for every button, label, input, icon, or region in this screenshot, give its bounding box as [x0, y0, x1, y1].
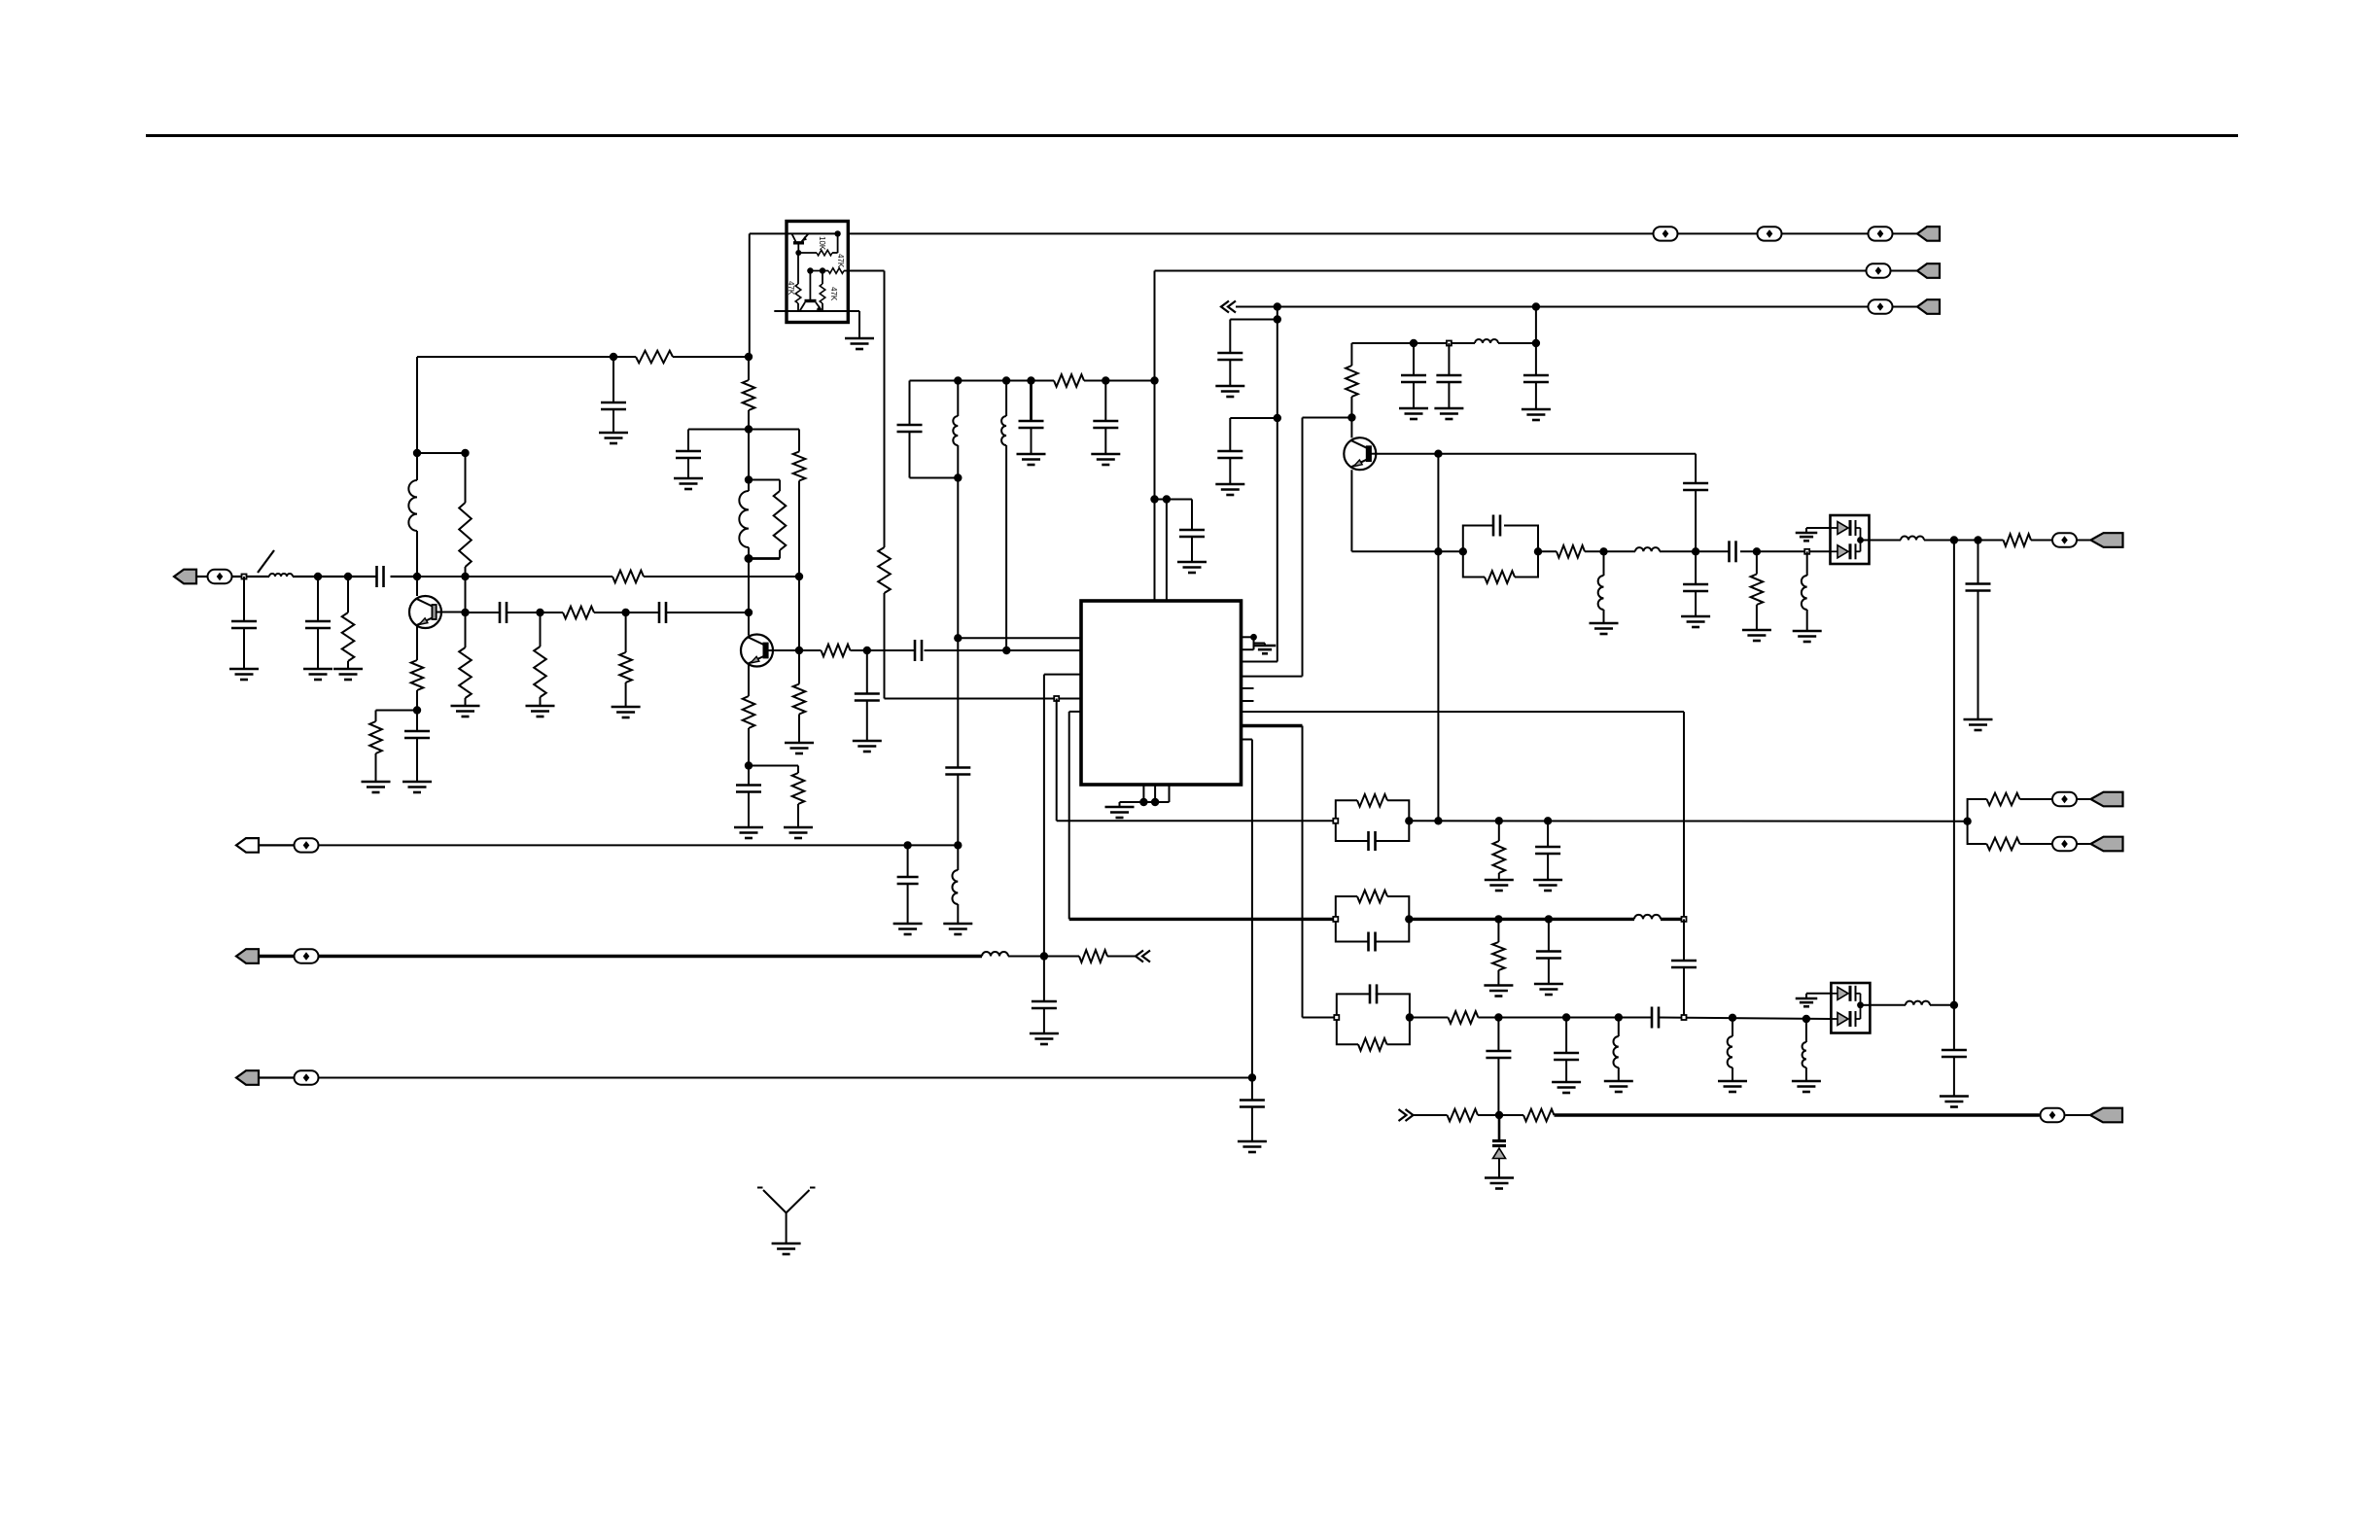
capacitor C5	[404, 731, 430, 782]
wire D1 gnd arm	[1806, 528, 1831, 533]
ground C8	[674, 478, 703, 489]
wire l3 to IC pin	[1242, 661, 1277, 663]
ground ZD1	[1485, 1178, 1514, 1189]
node 1541/1046	[1494, 1013, 1502, 1021]
resistor R3	[459, 503, 472, 567]
ground C17	[1091, 454, 1120, 465]
ground R8	[526, 706, 555, 717]
capacitor C12	[1217, 353, 1242, 386]
capacitor C8	[676, 430, 701, 479]
ground D1	[1796, 533, 1818, 541]
wire U2 right up	[837, 233, 839, 253]
connector J2	[1917, 227, 1940, 241]
ground R22	[1742, 630, 1771, 641]
resistor R12 tank	[749, 480, 786, 559]
capacitor C6	[500, 602, 507, 623]
resistor R29	[1079, 950, 1107, 962]
resistor R16	[792, 773, 805, 804]
capacitor C14	[1523, 375, 1549, 409]
ground C12	[1215, 386, 1244, 397]
wire D1 out	[1861, 540, 2052, 542]
node combo3 R	[1406, 1013, 1414, 1021]
wire U2 top rail	[750, 232, 838, 234]
wire link 429-478 y466	[417, 452, 466, 454]
inductor L14	[1728, 1018, 1732, 1081]
ground IC right	[1254, 646, 1277, 653]
ground C23	[1434, 408, 1463, 419]
wire out1	[1585, 550, 1831, 552]
wire pin 693	[1044, 675, 1081, 1001]
capacitor C32	[1486, 1018, 1511, 1116]
resistor U2-R2 47K	[795, 253, 801, 311]
inductor L8	[1598, 551, 1604, 623]
node 1314/315	[1274, 302, 1281, 310]
capacitor C4	[601, 357, 626, 433]
ground C30	[1534, 984, 1563, 995]
feedthru FB8	[2052, 837, 2077, 851]
wire q3 base ext	[1438, 454, 1696, 483]
connector J3	[1917, 263, 1940, 278]
wire combo2 feed	[1069, 918, 1336, 921]
wire top bias y367	[417, 356, 749, 358]
ground L13	[1604, 1081, 1633, 1092]
node open 1490/353	[1447, 341, 1452, 346]
wire Q2 emitter	[748, 664, 750, 696]
ground C14	[1522, 409, 1551, 420]
node input A	[242, 575, 247, 579]
label 10K	[818, 236, 826, 251]
wire top horizontal rule	[146, 134, 2238, 137]
wire x1086 down	[1057, 699, 1336, 822]
wire lineD bold	[1555, 1113, 2091, 1116]
wire pin 656	[958, 637, 1081, 639]
wire y441 link	[688, 429, 799, 431]
resistor R5	[612, 571, 644, 583]
wire combo1 out	[1409, 820, 1967, 822]
diode D1a	[1831, 520, 1861, 541]
resistor R17	[822, 645, 851, 657]
wire x1479 down	[1437, 454, 1439, 822]
wire lineC	[319, 1077, 1252, 1079]
varactor ZD1	[1492, 1115, 1506, 1178]
feedthru FB5	[1869, 299, 1893, 313]
offpage left line3	[1221, 301, 1236, 313]
node 429/730	[413, 706, 421, 714]
node open 1732/945	[1682, 917, 1687, 922]
node 1649/567	[1599, 547, 1607, 555]
node 2010/555	[1950, 536, 1958, 543]
wire c12 arm	[1230, 320, 1277, 354]
wire x770 vertical	[748, 233, 751, 635]
node 1580/353	[1532, 339, 1540, 347]
ground C25	[1681, 616, 1710, 627]
wire combo3 feed	[1303, 1017, 1337, 1019]
svg-text:47K: 47K	[829, 287, 838, 301]
connector J7	[2078, 837, 2123, 852]
capacitor C16	[1019, 381, 1044, 455]
wire input line	[232, 576, 417, 577]
wire x478 vertical	[465, 453, 467, 647]
resistor R31	[1523, 1109, 1555, 1122]
node combo2 R	[1405, 915, 1413, 923]
inductor L13	[1613, 1018, 1618, 1082]
node 1479/567	[1434, 547, 1442, 555]
node 478/630 base Q1	[461, 609, 469, 616]
feedthru FB6	[2052, 533, 2077, 546]
resistor R13	[793, 452, 806, 481]
connector J4	[1917, 299, 1940, 314]
node 1744/567	[1692, 547, 1699, 555]
node 478/466	[461, 449, 469, 457]
wire U2 bottom rail	[774, 310, 859, 312]
node 1807/567	[1753, 547, 1761, 555]
inductor L16	[1906, 1001, 1930, 1005]
node U2 mid2	[820, 267, 825, 273]
node open 1086/718	[1054, 696, 1059, 701]
label tuning slash	[258, 550, 274, 573]
node 770/441	[745, 425, 752, 433]
ground C1	[229, 669, 259, 680]
node 1611/1046	[1562, 1013, 1570, 1021]
wire splitter dn	[1968, 822, 2052, 844]
wire x1187	[1154, 271, 1156, 602]
wire combo3 out	[1410, 1018, 1831, 1020]
node combo2 L	[1333, 917, 1338, 922]
wire L3 leads	[748, 480, 750, 559]
node 770/787	[745, 761, 752, 769]
node 822/669	[795, 647, 803, 654]
inductor L7	[1475, 339, 1498, 343]
capacitor C22	[1401, 343, 1426, 408]
node 1479/844	[1434, 817, 1442, 824]
resistor R25	[1987, 793, 2020, 806]
connector J10 gray	[236, 1070, 319, 1085]
node 985/391	[954, 376, 962, 384]
node 1541/945	[1494, 915, 1502, 923]
capacitor C1	[231, 577, 257, 669]
capacitor C25	[1683, 551, 1708, 616]
resistor R6	[411, 660, 424, 690]
wire U2 mid rail	[810, 270, 828, 272]
ground C9	[734, 827, 763, 838]
wire q3 emitter	[1351, 470, 1462, 551]
node U2 mid	[807, 267, 813, 273]
resistor R18	[878, 547, 891, 593]
transistor U2-T2	[800, 271, 822, 312]
wire q3 base	[1376, 453, 1438, 455]
ground R4	[451, 706, 480, 717]
inductor L12	[1634, 915, 1661, 920]
node 1314/328	[1274, 315, 1281, 323]
node 1199/513	[1163, 495, 1171, 503]
resistor R24	[1493, 821, 1506, 880]
node 631/367	[610, 353, 617, 361]
wire link q3c	[1303, 417, 1352, 419]
capacitor C31	[1671, 919, 1697, 1017]
stub pin 721	[1242, 700, 1254, 702]
wire line1	[848, 232, 1917, 234]
diode box D1	[1831, 515, 1870, 564]
node 2034/555	[1974, 536, 1981, 543]
feedthru FB9	[2041, 1108, 2065, 1122]
capacitor C28	[1942, 1050, 1967, 1097]
node 1187/391	[1150, 376, 1158, 384]
node combo1 R	[1405, 817, 1413, 824]
ground C22	[1399, 408, 1428, 419]
resistor U2-R3 47K	[828, 268, 848, 274]
resistor R26	[1987, 838, 2020, 851]
node 1542/1147	[1495, 1111, 1503, 1119]
resistor R19	[1054, 374, 1084, 387]
wire c13 arm	[1230, 418, 1277, 451]
node 1665/1046	[1615, 1013, 1623, 1021]
inductor L1	[269, 574, 293, 577]
resistor R1	[342, 577, 355, 669]
node 985/869	[954, 841, 962, 849]
capacitor C2	[305, 577, 331, 669]
node 822/593	[795, 573, 803, 580]
capacitor C10	[855, 650, 880, 741]
feedthru FB1	[1654, 227, 1678, 240]
node 1314/430	[1274, 414, 1281, 422]
ground D2	[1796, 998, 1818, 1006]
transistor Q2	[741, 635, 773, 667]
capacitor C17	[1093, 381, 1118, 455]
transistor Q1	[409, 596, 441, 628]
capacitor C18	[1179, 530, 1205, 562]
wire q3 collector	[1350, 343, 1352, 437]
ground C10	[853, 741, 882, 752]
combo A	[1463, 515, 1538, 583]
svg-text:47K: 47K	[787, 281, 795, 296]
node 429/593	[413, 573, 421, 580]
node 985/656	[954, 634, 962, 642]
combo1	[1336, 794, 1410, 851]
capacitor C33	[1554, 1018, 1579, 1083]
IC U1	[1081, 601, 1242, 785]
wire lineA	[319, 844, 958, 846]
feedthru FB3	[1869, 227, 1893, 240]
resistor U2-R4 47K	[820, 271, 825, 312]
resistor R28	[1448, 1011, 1478, 1024]
node 1858/1048	[1802, 1015, 1810, 1023]
node 1187/513	[1150, 495, 1158, 503]
wire c15 bottom	[910, 477, 959, 479]
node 1288/1104	[1248, 1073, 1256, 1081]
connector J11	[2090, 1108, 2122, 1123]
resistor R2	[636, 351, 673, 364]
capacitor C19	[945, 768, 970, 775]
resistor R7	[369, 721, 382, 753]
inductor L15	[1802, 1019, 1806, 1081]
wire lineB bold	[319, 955, 1136, 958]
node 1074/983	[1040, 952, 1048, 960]
svg-text:10K: 10K	[818, 236, 826, 251]
resistor R30	[1448, 1109, 1479, 1122]
capacitor C35	[897, 845, 919, 924]
ground C27	[1964, 719, 1993, 730]
ground L10	[1793, 631, 1822, 642]
wire ic bottom	[1120, 785, 1170, 807]
ground C5	[402, 782, 432, 792]
wire emitter branch	[376, 711, 418, 722]
capacitor C11	[915, 640, 922, 661]
wire Q2 base	[773, 649, 799, 651]
capacitor C34	[1652, 1007, 1659, 1029]
node 1137/391	[1102, 376, 1109, 384]
ground R27	[1484, 986, 1513, 997]
ground C13	[1215, 484, 1244, 495]
inductor L6	[952, 870, 958, 924]
node 770/630	[745, 609, 752, 616]
wire Q1 base	[441, 612, 466, 613]
stub pin 708	[1242, 687, 1254, 689]
label 47K a	[787, 281, 795, 296]
node 1035/669	[1002, 647, 1010, 654]
antenna ANT1	[757, 1188, 816, 1244]
resistor R21	[1557, 545, 1585, 558]
ground R10	[612, 707, 641, 717]
node 770/367	[745, 353, 752, 361]
offpage right lineB	[1136, 951, 1150, 962]
resistor R27	[1492, 919, 1505, 985]
node 1580/315	[1532, 302, 1540, 310]
capacitor C30	[1536, 919, 1561, 984]
resistor R9	[563, 607, 594, 619]
node 555/630	[536, 609, 543, 616]
transistor U2-T1	[791, 233, 808, 256]
resistor R15	[743, 696, 755, 728]
inductor L17	[982, 952, 1008, 957]
capacitor C15 series	[897, 381, 923, 478]
feedthru FB7	[2052, 792, 2077, 806]
resistor R11	[743, 380, 755, 410]
connector J8 hollow	[236, 838, 319, 853]
wire D2 gnd arm	[1806, 994, 1831, 998]
wire R6 down	[416, 690, 418, 731]
resistor U2-R1 10K	[798, 250, 838, 256]
wire Q1 emitter	[416, 626, 418, 660]
node 2010/1033	[1950, 1001, 1958, 1009]
diode D2a	[1831, 986, 1860, 1005]
wire lineD	[1414, 1114, 1524, 1116]
node 1035/391	[1002, 376, 1010, 384]
capacitor C24	[1683, 483, 1708, 551]
node D2 out	[1857, 1001, 1864, 1008]
wire base line	[466, 612, 750, 613]
ground L14	[1718, 1081, 1747, 1092]
resistor R14	[793, 650, 806, 743]
wire D2 out	[1861, 1004, 1954, 1006]
node open 1858/567	[1804, 549, 1809, 554]
resistor R10	[619, 612, 632, 707]
inductor L5	[1001, 381, 1006, 651]
node 985/491	[954, 473, 962, 481]
capacitor C7	[659, 602, 666, 623]
node combo1 L	[1333, 819, 1338, 823]
wire x2010	[1953, 541, 1955, 1051]
ground C20	[1030, 1033, 1059, 1044]
node 1782/1046	[1729, 1014, 1736, 1022]
ground R16	[784, 827, 813, 838]
resistor R8	[534, 612, 546, 706]
ground L6	[943, 924, 972, 934]
node 1593/945	[1545, 915, 1553, 923]
label 47K c	[829, 287, 838, 301]
wire y593 to resistor	[417, 576, 799, 577]
ground ANT1	[772, 1243, 801, 1254]
ground C18	[1177, 562, 1207, 573]
node combo3 L	[1334, 1015, 1339, 1020]
capacitor C13	[1217, 451, 1242, 484]
ground C28	[1940, 1097, 1969, 1107]
node D1 out	[1857, 537, 1864, 543]
wire U2 gnd lead	[858, 311, 860, 338]
node 643/630	[621, 609, 629, 616]
node input B	[314, 573, 322, 580]
wire pin gnd 655	[1242, 637, 1266, 649]
node 892/669	[863, 647, 871, 654]
node 1060/391	[1027, 376, 1034, 384]
node 770/574	[745, 554, 753, 563]
wire x1199	[1155, 500, 1193, 602]
wire Q2 em branch	[749, 766, 798, 774]
node icb2	[1151, 798, 1159, 806]
ground U2	[845, 338, 874, 349]
connector J6	[2078, 792, 2123, 807]
offpage lineD	[1399, 1109, 1414, 1121]
node 933/869	[903, 841, 911, 849]
node 1390/429	[1347, 413, 1355, 421]
ground C2	[303, 669, 332, 680]
node 1454/353	[1410, 339, 1417, 347]
ground R14	[785, 743, 814, 753]
wire x822 vertical	[798, 430, 800, 651]
wire vrail	[910, 380, 1155, 382]
ground R24	[1485, 880, 1514, 891]
wire emitter node	[748, 728, 750, 786]
ground C29	[1533, 880, 1562, 891]
feedthru FB2	[1758, 227, 1782, 240]
connector J9 gray	[236, 949, 319, 963]
diode D2b	[1831, 1005, 1860, 1027]
node comboA L	[1459, 547, 1467, 555]
node 770/493	[745, 475, 752, 483]
node 1542/844	[1495, 817, 1503, 824]
wire pin 746 bold	[1242, 726, 1303, 1018]
connector J5 RF out	[2078, 533, 2123, 547]
wire x909	[848, 271, 1081, 699]
combo2	[1336, 891, 1410, 952]
wire q2base-ic	[799, 649, 1081, 651]
inductor L2	[408, 480, 417, 531]
capacitor C27	[1966, 541, 1991, 720]
wire q3 rail	[1351, 342, 1536, 344]
wire pin 760	[1242, 740, 1252, 1101]
wire x985 down	[957, 478, 959, 639]
node input C	[344, 573, 352, 580]
inductor L11	[1901, 537, 1924, 541]
ground C16	[1017, 454, 1046, 465]
diode box D2	[1831, 983, 1870, 1033]
capacitor C20	[1032, 1001, 1057, 1033]
wire combo2 out bold	[1409, 918, 1684, 921]
ground C35	[893, 924, 923, 934]
connector J1 RF input	[174, 570, 232, 584]
ground C21	[1238, 1141, 1267, 1152]
resistor R20	[1346, 366, 1358, 397]
wire x429 vertical	[416, 357, 418, 596]
